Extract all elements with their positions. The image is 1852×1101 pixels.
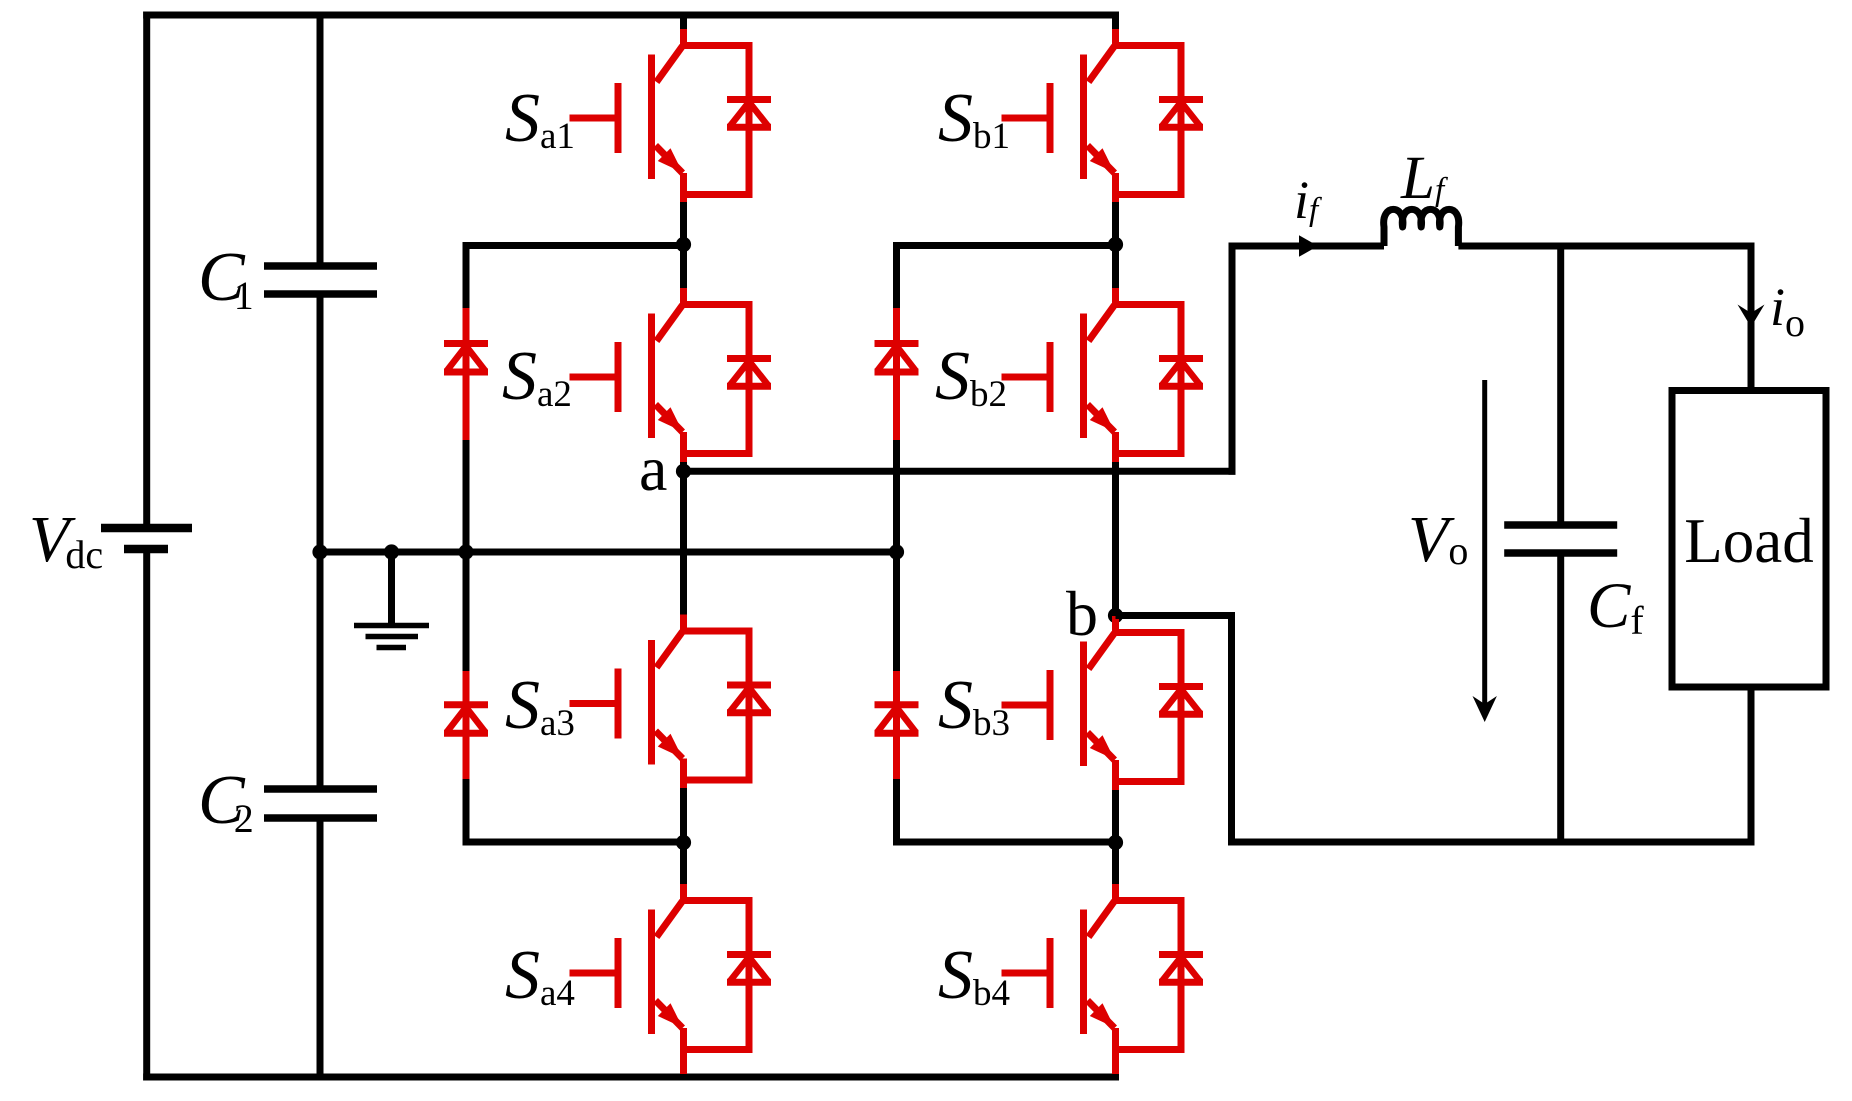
wire leg a clamp bottom (clamp rail to node) <box>463 839 684 846</box>
wire leg a top stub (top rail to Sa1) <box>680 15 687 31</box>
junction dot Sa3-Sa4 node <box>676 835 691 850</box>
junction dot Sa1-Sa2 node <box>676 237 691 252</box>
transistor Sa3 (IGBT with anti-parallel diode) <box>570 615 772 790</box>
transistor Sa2 (IGBT with anti-parallel diode) <box>570 288 772 463</box>
wire capacitor rail middle segment (C1 to C2 through neutral) <box>317 294 324 789</box>
wire bottom return <box>1228 839 1755 846</box>
wire leg a between Sa3 and Sa4 <box>680 788 687 886</box>
capacitor Cf plates <box>1504 525 1617 553</box>
arrow output voltage Vo <box>1473 380 1497 722</box>
capacitor Cf branch upper wire <box>1557 246 1564 525</box>
transistor Sb1 (IGBT with anti-parallel diode) <box>1002 29 1204 204</box>
diode Da1 (clamping diode) <box>444 308 488 441</box>
wire leg a clamp rail lower section <box>463 779 470 846</box>
wire capacitor rail bottom segment (C2 to bottom rail) <box>317 818 324 1077</box>
wire leg b clamp top (node to clamp rail) <box>893 242 1116 249</box>
transistor Sa4 (IGBT with anti-parallel diode) <box>570 884 772 1074</box>
diode Db2 (clamping diode) <box>875 671 919 780</box>
load box <box>1672 391 1826 688</box>
wire phase b output vertical drop <box>1228 612 1235 846</box>
arrow current if <box>1299 235 1318 257</box>
capacitor Cf branch lower wire <box>1557 553 1564 842</box>
wire leg b top stub (top rail to Sb1) <box>1112 15 1119 31</box>
junction dot neutral at C rail <box>312 544 327 559</box>
wire leg b clamp rail upper section <box>893 242 900 309</box>
capacitor C1 plates <box>264 266 377 294</box>
wire leg b clamp rail middle lower section (neutral to lower diode) <box>893 552 900 672</box>
wire phase b output horizontal <box>1116 612 1236 619</box>
wire filter top left segment <box>1229 243 1385 250</box>
junction dot node a <box>676 464 691 479</box>
wire leg a phase node section (Sa2 to Sa3 crossing neutral) <box>680 462 687 617</box>
wire leg b clamp bottom (clamp rail to node) <box>893 839 1116 846</box>
junction dot neutral at leg a clamp rail <box>458 544 473 559</box>
diode Da2 (clamping diode) <box>444 671 488 780</box>
battery Vdc negative plate (short bar) <box>124 545 168 554</box>
wire leg b between Sb1 and Sb2 <box>1112 202 1119 290</box>
wire load bottom riser <box>1748 690 1755 846</box>
junction dot node b <box>1108 608 1123 623</box>
wire leg a clamp rail upper section <box>463 242 470 309</box>
junction dot neutral at ground tap <box>384 544 399 559</box>
svg-text:b: b <box>1066 578 1098 649</box>
wire neutral midline (C rail to leg b clamp rail) <box>320 549 897 556</box>
transistor Sb4 (IGBT with anti-parallel diode) <box>1002 884 1204 1074</box>
wire bottom DC- rail <box>143 1074 1119 1081</box>
transistor Sa1 (IGBT with anti-parallel diode) <box>570 29 772 204</box>
wire leg a between Sa1 and Sa2 <box>680 202 687 290</box>
wire left rail lower (Vdc- to bottom rail) <box>143 549 150 1081</box>
battery Vdc positive plate (long bar) <box>101 524 192 533</box>
capacitor C2 plates <box>264 789 377 818</box>
wire leg a clamp top (node to clamp rail) <box>463 242 684 249</box>
wire leg b phase node section (Sb2 to Sb3 crossing phase a wire) <box>1112 462 1119 618</box>
wire leg b clamp rail lower section <box>893 779 900 846</box>
arrow current io <box>1738 305 1765 328</box>
wire phase a output horizontal <box>684 468 1236 475</box>
ground symbol <box>354 552 429 648</box>
wire phase a output vertical riser <box>1229 243 1236 475</box>
junction dot Sb3-Sb4 node <box>1108 835 1123 850</box>
svg-text:Load: Load <box>1684 506 1813 576</box>
transistor Sb2 (IGBT with anti-parallel diode) <box>1002 288 1204 463</box>
wire leg a clamp rail middle upper section (diode to neutral) <box>463 440 470 552</box>
diode Db1 (clamping diode) <box>875 308 919 441</box>
wire left rail upper (Vdc+ to top rail) <box>143 12 150 525</box>
wire filter top right segment <box>1458 243 1754 250</box>
junction dot neutral at leg b clamp rail <box>889 544 904 559</box>
inductor Lf <box>1384 209 1459 246</box>
wire leg b between Sb3 and Sb4 <box>1112 790 1119 886</box>
wire leg b clamp rail middle upper section (diode to neutral) <box>893 440 900 552</box>
wire load top drop <box>1748 243 1755 390</box>
svg-text:a: a <box>639 433 667 504</box>
wire capacitor rail top segment (top rail to C1) <box>317 15 324 266</box>
transistor Sb3 (IGBT with anti-parallel diode) <box>1002 616 1204 791</box>
wire top DC+ rail <box>143 12 1119 19</box>
wire leg a clamp rail middle lower section (neutral to lower diode) <box>463 552 470 672</box>
junction dot Sb1-Sb2 node <box>1108 237 1123 252</box>
